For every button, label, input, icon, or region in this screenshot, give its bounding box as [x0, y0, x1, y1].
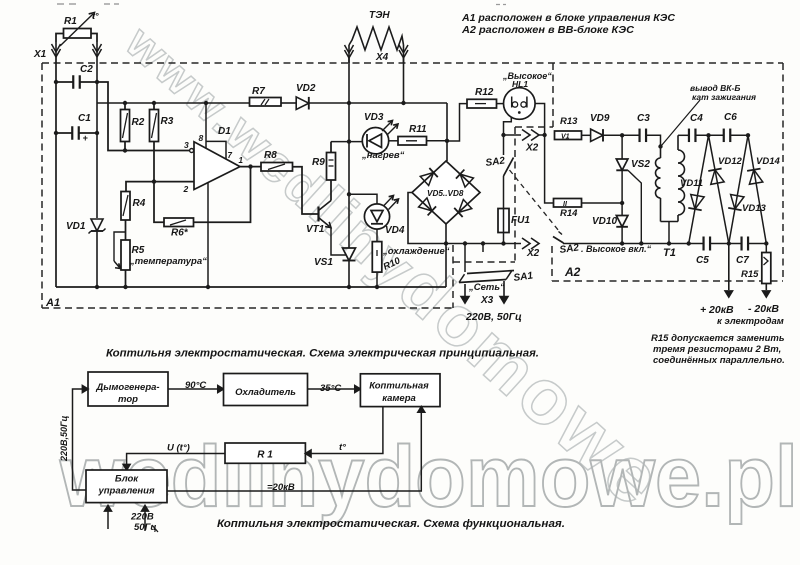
svg-text:R9: R9	[312, 157, 325, 168]
arrow mains input 2	[144, 509, 146, 531]
svg-text:X3: X3	[480, 295, 494, 306]
connector X2 lower	[522, 238, 530, 249]
wire C6 to node B	[730, 134, 748, 136]
op-amp D1	[194, 142, 240, 190]
wire C4 to node A	[696, 134, 724, 136]
resistor R4	[121, 192, 130, 221]
svg-text:R1: R1	[64, 16, 77, 27]
svg-text:VT1: VT1	[306, 224, 325, 235]
svg-text:=20кВ: =20кВ	[267, 482, 295, 493]
resistor R5 temperature pot	[121, 240, 130, 270]
connector X2 upper	[522, 130, 530, 141]
diode VD10	[621, 203, 623, 216]
wire C3 to T1 primary	[646, 135, 661, 146]
svg-text:220В: 220В	[130, 512, 154, 523]
resistor R10	[376, 229, 378, 242]
svg-text:VD2: VD2	[296, 83, 316, 94]
resistor R9	[327, 153, 336, 181]
svg-text:C5: C5	[696, 255, 709, 266]
resistor R7	[250, 98, 282, 107]
arrow 90C	[168, 388, 220, 390]
wire HL1 bottom tap	[504, 118, 512, 136]
svg-text:220В, 50Гц: 220В, 50Гц	[465, 311, 522, 323]
wire R10 to bus	[376, 272, 378, 287]
capacitor C2	[72, 75, 74, 89]
wire node A to Q	[709, 135, 729, 243]
wire t feedback	[309, 407, 383, 454]
wire heat indicator rail	[331, 141, 362, 143]
connector X3 pin1	[464, 284, 466, 297]
svg-text:+ 20кВ: + 20кВ	[700, 304, 734, 316]
block control unit	[86, 470, 167, 503]
wire R4 to R5	[125, 220, 127, 240]
svg-text:Коптильная: Коптильная	[369, 381, 429, 392]
wire VT1 emitter to VS1 gate	[331, 228, 346, 255]
connector X1 pin 2	[96, 42, 98, 57]
wire X4 pin2 down	[403, 57, 405, 103]
svg-text:C4: C4	[690, 113, 703, 124]
resistor R12	[467, 99, 497, 108]
wire bridge bottom down	[445, 224, 447, 287]
wire 20kV to chamber	[167, 410, 421, 491]
svg-text:+: +	[83, 133, 89, 143]
mechanical link SA2 dashed	[510, 170, 562, 234]
diode VD2	[296, 97, 309, 110]
wire R8 to VT1 base	[293, 167, 319, 214]
arrow 35C	[308, 388, 358, 390]
svg-text:C1: C1	[78, 113, 91, 124]
diode VD11	[691, 194, 704, 209]
svg-text:камера: камера	[382, 393, 416, 404]
svg-text:„нагрев“: „нагрев“	[361, 150, 405, 161]
wire bridge left to lower rail	[408, 193, 465, 244]
svg-text:90°С: 90°С	[185, 380, 206, 391]
switch SA1	[464, 244, 466, 273]
svg-text:- 20кВ: - 20кВ	[748, 303, 779, 315]
resistor R13	[555, 131, 582, 140]
block cooler	[224, 374, 308, 406]
svg-text:t°: t°	[92, 11, 99, 21]
watermark diagonal www.wedlinydomowe	[111, 0, 682, 524]
svg-text:SA2: SA2	[485, 155, 506, 169]
svg-text:C7: C7	[736, 255, 749, 266]
wire VT1 collector to R9	[330, 180, 332, 201]
svg-text:R14: R14	[560, 208, 578, 219]
wire C2 node to op-amp input 3	[97, 82, 192, 151]
svg-text:А2: А2	[564, 265, 581, 279]
output +20kV	[728, 244, 730, 291]
heater TEN zigzag	[349, 27, 404, 50]
svg-text:C2: C2	[80, 64, 93, 75]
block smoke generator	[88, 372, 168, 406]
diode VD1 zener	[91, 219, 103, 231]
wire R12 left to node	[447, 104, 467, 141]
resistor R6*	[164, 218, 194, 227]
wire op-amp pin8 power	[205, 103, 207, 149]
transistor VT1	[317, 207, 319, 222]
svg-text:R15: R15	[741, 269, 759, 280]
wire op-amp V- to bus	[207, 183, 209, 287]
wire R14 to VS2 node	[582, 202, 623, 204]
wire op-amp output	[240, 166, 261, 168]
svg-text:t°: t°	[339, 442, 346, 453]
svg-text:тор: тор	[118, 394, 138, 405]
svg-text:R4: R4	[133, 198, 146, 209]
wire right vertical from X1 pin2	[96, 57, 98, 218]
resistor R11	[389, 140, 398, 142]
lamp HL1	[504, 88, 536, 120]
resistor R15	[765, 244, 767, 253]
output -20kV	[765, 284, 767, 291]
svg-text:VD1: VD1	[66, 221, 86, 232]
capacitor C6	[723, 129, 725, 143]
svg-text:R2: R2	[132, 117, 145, 128]
svg-text:X2: X2	[525, 143, 539, 154]
svg-text:220В,50Гц: 220В,50Гц	[59, 415, 69, 462]
svg-text:50Гц: 50Гц	[134, 522, 157, 533]
connector X4 pin 2	[403, 45, 405, 63]
svg-text:соединённых параллельно.: соединённых параллельно.	[653, 355, 785, 366]
wire VD9 to C3	[603, 134, 639, 136]
diode VD14	[749, 170, 762, 185]
svg-text:А2 расположен в ВВ-блоке К: А2 расположен в ВВ-блоке КЭС	[461, 24, 635, 36]
svg-text:VD9: VD9	[590, 113, 610, 124]
wire R1 left to X1	[56, 34, 64, 43]
svg-text:X4: X4	[375, 52, 389, 63]
svg-text:„температура“: „температура“	[129, 256, 207, 267]
svg-text:R7: R7	[252, 86, 265, 97]
svg-text:1: 1	[239, 156, 244, 165]
svg-text:„Сеть“: „Сеть“	[468, 282, 505, 293]
capacitor C3	[638, 129, 640, 143]
resistor R2	[121, 110, 130, 142]
thyristor VS1	[348, 194, 350, 248]
svg-text:C6: C6	[724, 112, 737, 123]
block A1 dashed border	[42, 62, 783, 64]
svg-text:ТЭН: ТЭН	[369, 10, 390, 21]
svg-text:V1: V1	[561, 133, 570, 140]
transformer T1	[660, 147, 662, 159]
svg-text:VS1: VS1	[314, 257, 333, 268]
wire FU1 bottom	[503, 233, 505, 244]
wire R5 to bus	[125, 270, 127, 287]
thyristor VS2	[621, 135, 623, 159]
wire node A to P	[689, 135, 709, 243]
wire VS2 gate	[628, 170, 641, 243]
capacitor C5	[702, 237, 704, 251]
svg-text:35°С: 35°С	[320, 383, 341, 394]
svg-text:R6*: R6*	[171, 228, 189, 239]
svg-text:X2: X2	[526, 248, 540, 259]
resistor R8	[261, 163, 293, 172]
wire lower rail to X2	[465, 243, 521, 245]
svg-text:FU1: FU1	[511, 215, 530, 226]
block R1 sensor	[225, 443, 305, 463]
svg-text:управления: управления	[97, 486, 155, 497]
svg-text:тремя резисторами 2 Вт,: тремя резисторами 2 Вт,	[653, 344, 781, 355]
resistor R14	[554, 199, 582, 208]
wire bottom bus A1	[56, 286, 446, 288]
wire node B to R	[748, 135, 766, 243]
LED VD4	[364, 204, 389, 229]
wire R12 to HL1	[497, 103, 504, 105]
svg-text:А1 расположен в блоке упра: А1 расположен в блоке управления КЭС	[461, 12, 676, 24]
wire R1 right to X1	[91, 34, 97, 43]
svg-text:„охлаждение“: „охлаждение“	[382, 246, 450, 257]
diode VD9	[591, 129, 603, 141]
wire R9 top	[330, 142, 332, 153]
svg-text:R5: R5	[132, 245, 145, 256]
svg-text:Коптильня электростатическая.: Коптильня электростатическая. Схема функ…	[217, 518, 565, 530]
wire mains to smoke generator	[73, 389, 87, 490]
wire R6 left to pin2	[154, 182, 164, 223]
svg-text:кат зажигания: кат зажигания	[692, 92, 756, 102]
svg-text:C3: C3	[637, 113, 650, 124]
wire U(t) to control	[127, 454, 225, 467]
svg-text:SA1: SA1	[513, 270, 534, 284]
wire HL1 right to X2 line	[535, 104, 545, 136]
wire rail to bridge top	[446, 103, 448, 161]
switch SA2 lower contact	[553, 237, 564, 244]
diode VD13	[731, 195, 744, 210]
svg-text:2: 2	[183, 184, 189, 194]
block A2 dashed border	[515, 126, 553, 128]
wire node B to Q	[729, 135, 748, 243]
svg-text:HL1: HL1	[512, 79, 528, 89]
junction dots multiplier	[687, 241, 691, 245]
connector X3 pin2	[503, 281, 505, 297]
svg-text:VD10: VD10	[592, 216, 617, 227]
svg-text:Охладитель: Охладитель	[235, 387, 296, 398]
wire X4 pin1 down	[348, 57, 350, 194]
svg-text:Дымогенера-: Дымогенера-	[95, 382, 159, 393]
wire R13 to VD9	[582, 134, 592, 136]
svg-text:T1: T1	[663, 247, 676, 259]
wire top rail	[97, 102, 250, 104]
svg-text:R8: R8	[264, 150, 277, 161]
wire left bus	[55, 57, 57, 287]
svg-text:R 1: R 1	[257, 450, 273, 461]
resistor R3	[150, 110, 159, 142]
wire A2 bottom bus	[563, 243, 703, 245]
wire R14 branch	[545, 135, 554, 203]
svg-text:U (t°): U (t°)	[167, 443, 190, 454]
rectifier bridge VD5..VD8	[412, 161, 480, 224]
svg-text:R13: R13	[560, 116, 578, 127]
LED VD3	[362, 128, 388, 154]
wire op-amp pin2 input	[126, 182, 194, 192]
annotation ignition coil terminal	[662, 100, 701, 146]
svg-text:R12: R12	[475, 87, 494, 98]
svg-text:VD12: VD12	[718, 156, 742, 167]
svg-text:VD13: VD13	[742, 203, 766, 214]
svg-text:R3: R3	[161, 116, 174, 127]
svg-text:VD4: VD4	[385, 225, 405, 236]
fuse FU1	[498, 209, 509, 233]
svg-text:VD11: VD11	[680, 178, 703, 189]
svg-text:Коптильня электростатическая.: Коптильня электростатическая. Схема элек…	[106, 348, 539, 360]
svg-text:R11: R11	[409, 124, 427, 135]
wire T1 secondary to C4	[678, 134, 689, 136]
wire X2 upper line	[504, 134, 522, 136]
connector X1 pin 1	[55, 42, 57, 57]
connector X4 pin 1	[348, 45, 350, 63]
capacitor C1	[71, 126, 73, 140]
wire R11 to node	[427, 140, 448, 142]
scan artifacts top edge	[57, 3, 78, 5]
wire cooling branch	[349, 194, 377, 204]
svg-text:SA2: SA2	[559, 242, 580, 256]
switch SA2 upper contact	[503, 176, 505, 209]
svg-text:R15 допускается заменить: R15 допускается заменить	[651, 333, 785, 344]
resistor R1	[64, 29, 92, 39]
capacitor C4	[688, 129, 690, 143]
arrow mains input 1	[107, 509, 109, 529]
svg-text:D1: D1	[218, 126, 231, 137]
block smoking chamber	[360, 374, 440, 407]
svg-text:VD3: VD3	[364, 112, 384, 123]
svg-text:X1: X1	[33, 49, 47, 60]
svg-text:8: 8	[199, 133, 204, 143]
svg-text:VD14: VD14	[756, 156, 780, 167]
diode VD12	[711, 170, 724, 185]
wire R6 right to output	[194, 167, 251, 223]
svg-text:VD5..VD8: VD5..VD8	[427, 189, 464, 198]
svg-text:к электродам: к электродам	[717, 316, 784, 327]
svg-text:3: 3	[184, 140, 189, 150]
svg-text:7: 7	[228, 151, 233, 160]
capacitor C7	[740, 237, 742, 251]
svg-text:VS2: VS2	[631, 159, 650, 170]
svg-text:А1: А1	[45, 297, 60, 309]
svg-text:Блок: Блок	[115, 474, 139, 485]
